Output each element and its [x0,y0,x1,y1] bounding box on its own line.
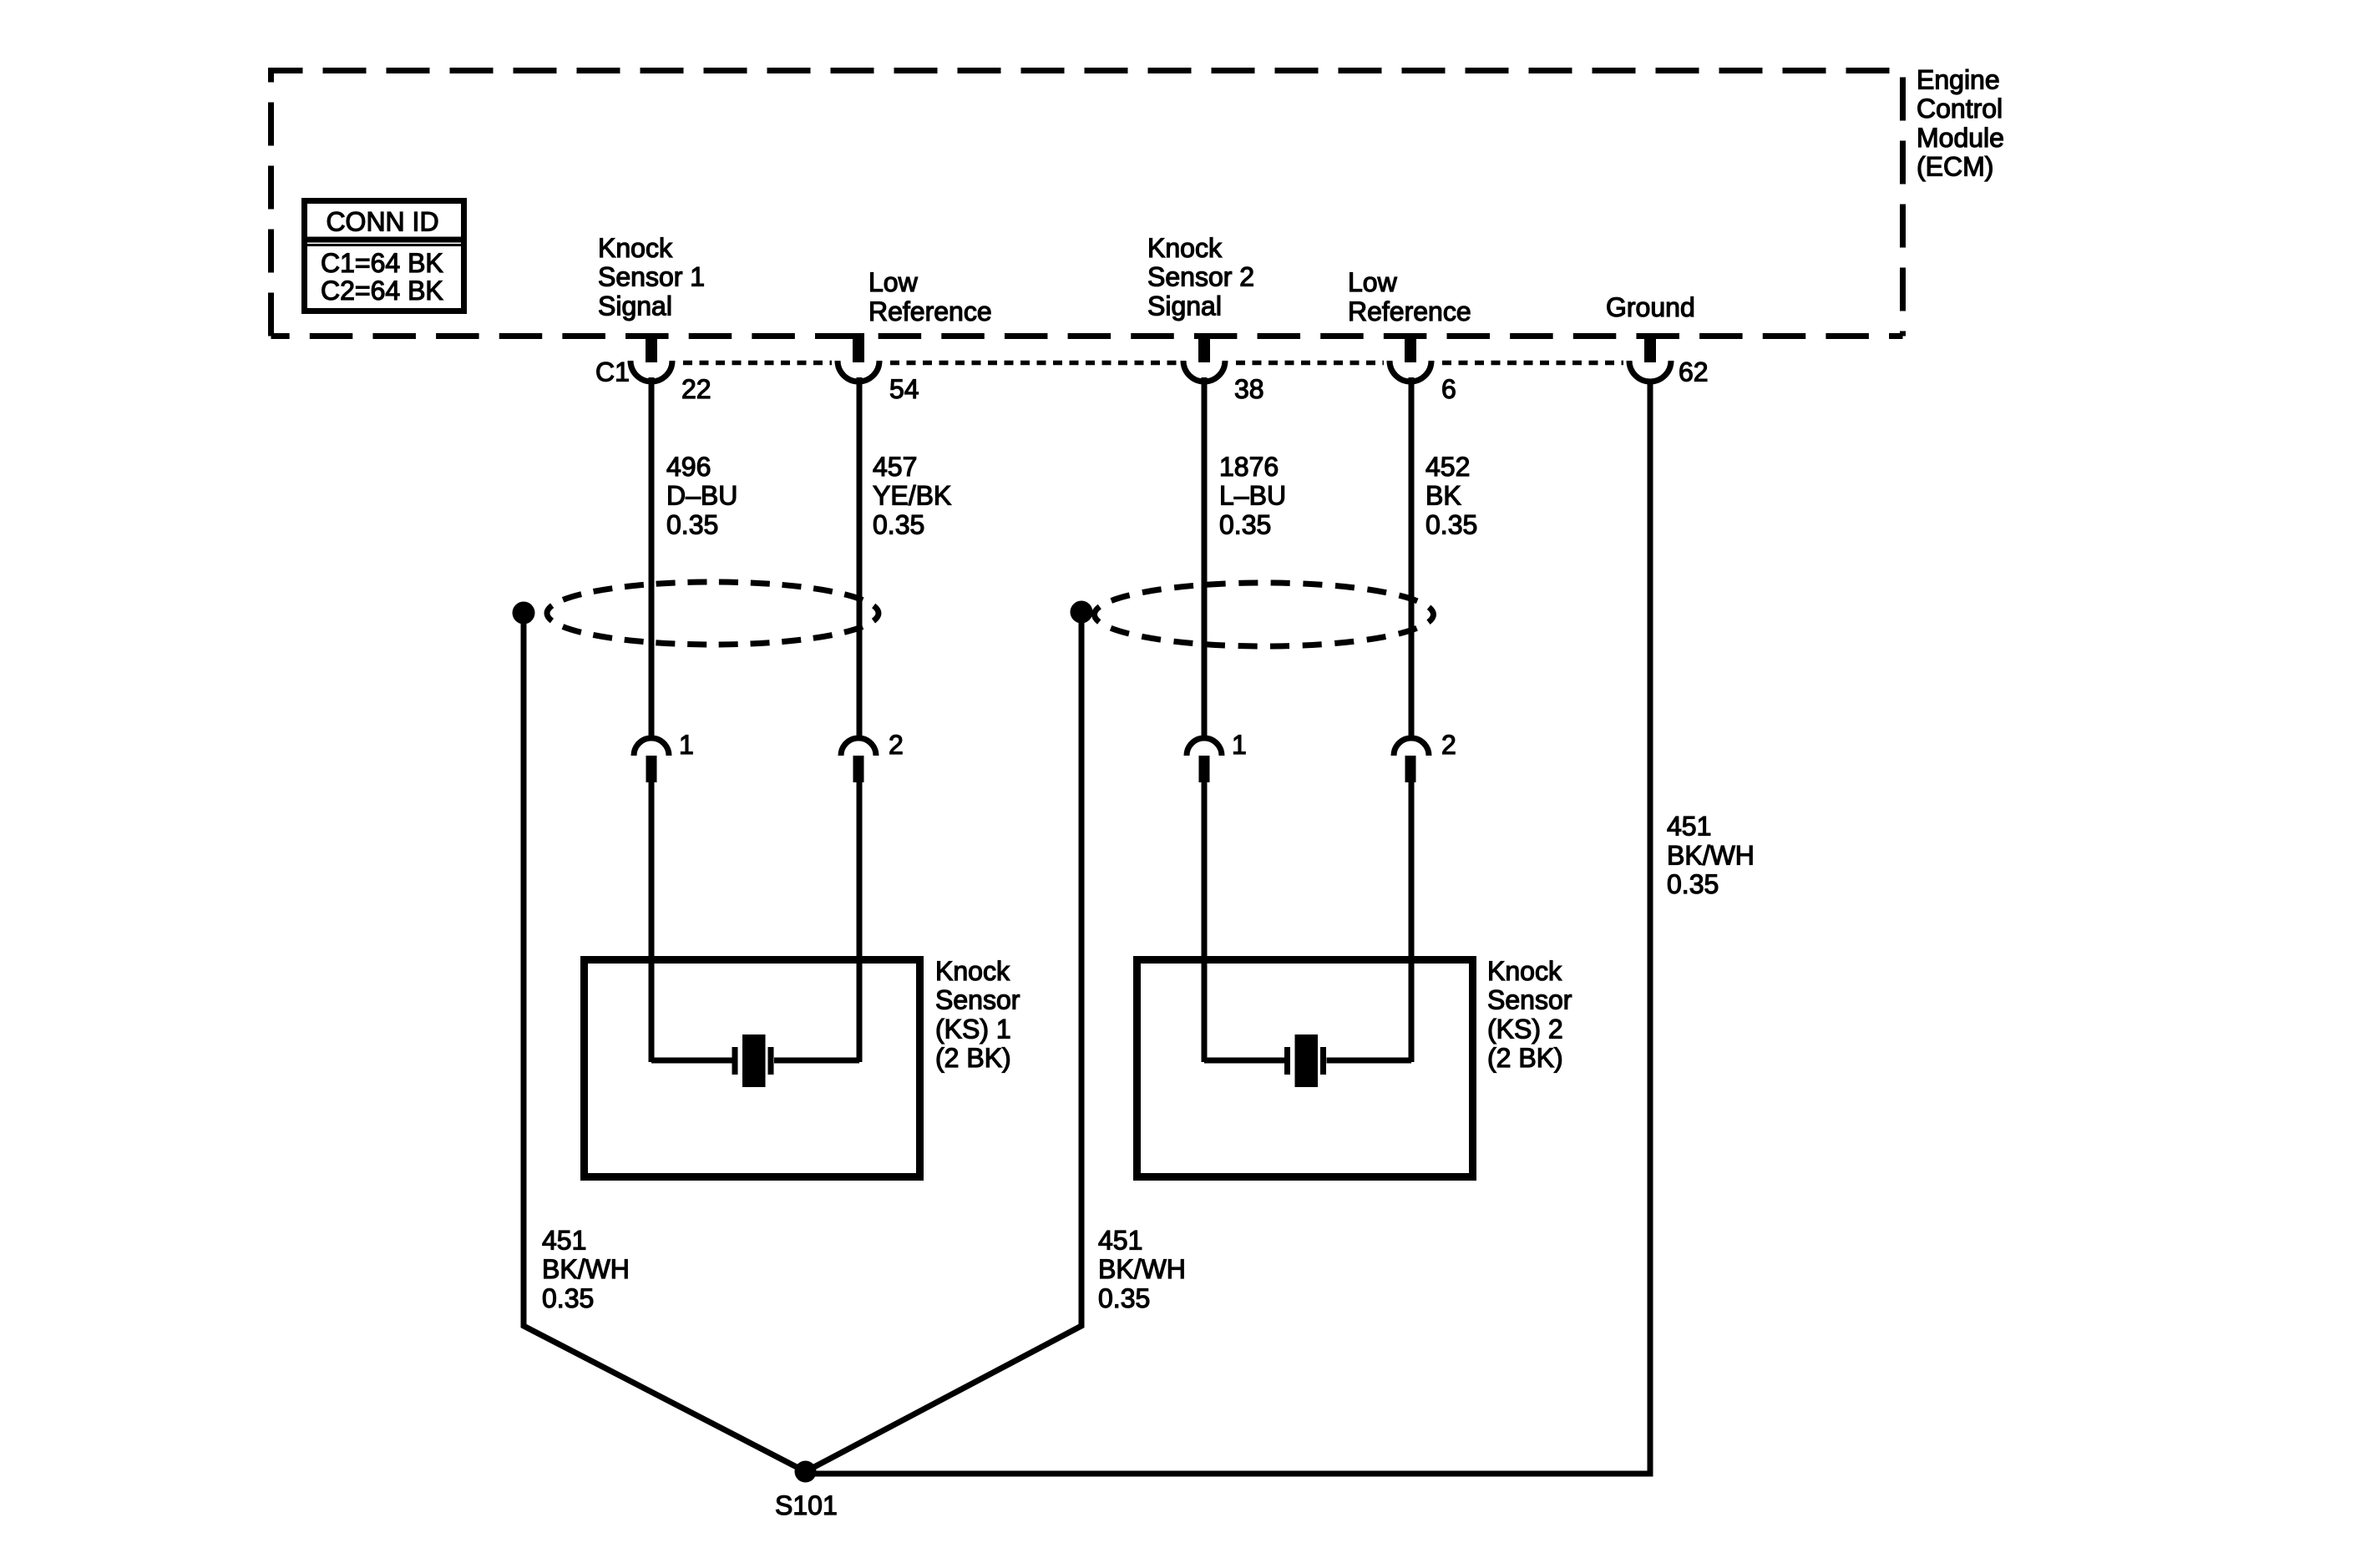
svg-text:451: 451 [542,1226,586,1256]
svg-text:(KS) 1: (KS) 1 [935,1014,1011,1044]
svg-text:Sensor 1: Sensor 1 [598,262,705,292]
svg-text:Reference: Reference [1348,296,1471,326]
wire 496 D-BU (pin 22 to KS1 pin 1) [649,377,655,739]
svg-text:0.35: 0.35 [542,1283,594,1313]
svg-text:Sensor: Sensor [935,985,1020,1015]
wire label 451 BK/WH 0.35 (middle) [1098,1226,1186,1313]
svg-text:0.35: 0.35 [666,509,718,539]
wire label 452 BK 0.35 [1425,452,1477,539]
ECM pin 54 (Low Reference 1) [838,333,919,404]
svg-text:Reference: Reference [868,296,992,326]
svg-text:54: 54 [889,374,919,404]
node label: Ground [1606,292,1695,322]
svg-text:BK/WH: BK/WH [1098,1254,1186,1284]
svg-text:6: 6 [1441,374,1456,404]
KS1 label [935,956,1020,1073]
svg-text:Module: Module [1917,123,2004,153]
svg-text:2: 2 [1441,730,1456,760]
svg-text:Knock: Knock [598,233,673,263]
drain wire 451 BK/WH middle (shield 2 to S101) [806,612,1082,1472]
svg-text:496: 496 [666,452,711,482]
svg-text:(2 BK): (2 BK) [935,1043,1011,1073]
node label: Low Reference (2) [1348,267,1471,326]
svg-text:0.35: 0.35 [1219,509,1271,539]
svg-text:L–BU: L–BU [1219,481,1286,511]
svg-text:0.35: 0.35 [1425,509,1477,539]
svg-text:Low: Low [1348,267,1398,297]
ECM pin 38 (Knock Sensor 2 Signal) [1183,333,1264,404]
svg-text:1876: 1876 [1219,452,1279,482]
svg-text:Control: Control [1917,94,2003,124]
svg-text:451: 451 [1667,812,1711,842]
svg-text:0.35: 0.35 [1098,1283,1150,1313]
KS2 label [1487,956,1572,1073]
Knock Sensor KS2 box [1137,960,1473,1177]
svg-text:Low: Low [868,267,919,297]
svg-text:Signal: Signal [598,291,672,321]
svg-text:38: 38 [1234,374,1264,404]
shield ellipse 2 (KS2 cable shield) [1095,583,1434,646]
KS2 connector pin 2 [1394,730,1456,782]
node label: Low Reference (1) [868,267,992,326]
svg-text:Sensor: Sensor [1487,985,1572,1015]
svg-text:Sensor 2: Sensor 2 [1147,262,1254,292]
svg-text:BK/WH: BK/WH [1667,840,1755,870]
svg-text:S101: S101 [775,1490,838,1520]
node label: Knock Sensor 1 Signal [598,233,705,321]
svg-text:(ECM): (ECM) [1917,152,1993,182]
drain wire 451 BK/WH left (shield 1 to S101) [524,613,806,1472]
svg-text:1: 1 [1232,730,1247,760]
wire 452 BK (pin 6 to KS2 pin 2) [1409,377,1415,739]
wire KS2 pin2 into sensor [1409,782,1415,1062]
svg-text:62: 62 [1679,357,1709,387]
svg-text:451: 451 [1098,1226,1142,1256]
svg-text:452: 452 [1425,452,1470,482]
node label: Knock Sensor 2 Signal [1147,233,1254,321]
svg-text:Knock: Knock [1147,233,1223,263]
KS1 connector pin 1 [634,730,694,782]
svg-text:Ground: Ground [1606,292,1695,322]
svg-text:C2=64 BK: C2=64 BK [321,276,443,306]
Knock Sensor KS1 box [585,960,920,1177]
wire 457 YE/BK (pin 54 to KS1 pin 2) [857,377,863,739]
svg-text:C1=64 BK: C1=64 BK [321,248,443,278]
svg-text:D–BU: D–BU [666,481,737,511]
svg-text:(2 BK): (2 BK) [1487,1043,1563,1073]
ECM pin 6 (Low Reference 2) [1390,333,1456,404]
KS1 connector pin 2 [841,730,904,782]
junction dot shield 1 [513,602,535,625]
svg-text:BK: BK [1425,481,1461,511]
svg-text:Knock: Knock [935,956,1010,986]
svg-text:C1: C1 [595,357,630,387]
splice S101 junction dot [795,1461,817,1483]
svg-text:Signal: Signal [1147,291,1222,321]
svg-text:457: 457 [873,452,917,482]
svg-text:CONN ID: CONN ID [326,207,438,237]
ECM label: Engine Control Module (ECM) [1917,65,2004,182]
junction dot shield 2 [1071,601,1093,624]
wire label 1876 L-BU 0.35 [1219,452,1286,539]
wire label 451 BK/WH 0.35 (left) [542,1226,630,1313]
wire KS1 pin2 into sensor [857,782,863,1062]
ECM pin 62 (Ground) [1629,333,1709,387]
svg-text:YE/BK: YE/BK [873,481,951,511]
svg-text:1: 1 [679,730,694,760]
CONN ID table [301,201,467,311]
svg-text:2: 2 [889,730,904,760]
shield ellipse 1 (KS1 cable shield) [547,582,879,645]
svg-text:BK/WH: BK/WH [542,1254,630,1284]
KS2 connector pin 1 [1187,730,1247,782]
piezo element KS2 [1204,1034,1411,1087]
piezo element KS1 [651,1034,859,1087]
wire label 451 BK/WH 0.35 (right) [1667,812,1755,899]
wire KS1 pin1 into sensor [649,782,655,1062]
svg-text:22: 22 [681,374,711,404]
ground wire 451 BK/WH right (pin 62 to S101) [806,380,1651,1474]
wire KS2 pin1 into sensor [1202,782,1208,1062]
svg-text:Knock: Knock [1487,956,1562,986]
C1 connector dotted line [683,361,1623,366]
wire label 457 YE/BK 0.35 [873,452,951,539]
svg-text:(KS) 2: (KS) 2 [1487,1014,1563,1044]
svg-text:Engine: Engine [1917,65,2000,95]
svg-text:0.35: 0.35 [1667,869,1719,899]
ECM pin 22 (Knock Sensor 1 Signal) [630,333,711,404]
wire 1876 L-BU (pin 38 to KS2 pin 1) [1202,377,1208,739]
ECM module dashed box [271,71,1903,336]
svg-text:0.35: 0.35 [873,509,924,539]
wire label 496 D-BU 0.35 [666,452,737,539]
